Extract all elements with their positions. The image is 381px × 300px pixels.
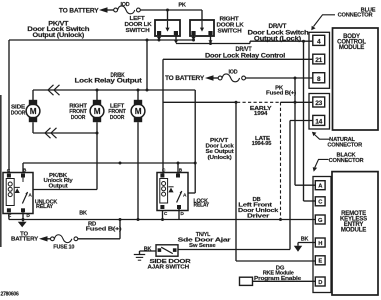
wire bottom bus to RKE pin G bbox=[9, 219, 315, 221]
ground RKE pin H bbox=[294, 246, 302, 252]
unlock relay top pin squares bbox=[7, 174, 11, 178]
svg-text:CONNECTOR: CONNECTOR bbox=[329, 158, 364, 164]
svg-text:Sw Sense: Sw Sense bbox=[189, 243, 216, 249]
lock relay diode bbox=[168, 188, 173, 193]
wire sense drop to RKE pin E bbox=[235, 102, 237, 261]
svg-text:BATTERY: BATTERY bbox=[11, 237, 38, 243]
svg-text:IOD: IOD bbox=[229, 70, 238, 76]
switch S2 contact squares bbox=[191, 31, 195, 35]
svg-text:MODULE: MODULE bbox=[339, 44, 364, 51]
svg-text:TO BATTERY: TO BATTERY bbox=[59, 8, 100, 15]
svg-text:IOD: IOD bbox=[121, 2, 130, 8]
motor M3 left front door bbox=[137, 90, 139, 100]
wire pin 23 feed (early 1994) bbox=[163, 101, 237, 103]
svg-text:Fused B(+): Fused B(+) bbox=[266, 90, 296, 96]
pin H box bbox=[315, 238, 325, 247]
svg-text:Lock Relay Output: Lock Relay Output bbox=[75, 78, 142, 85]
wire fuse10 riser bbox=[119, 220, 121, 239]
svg-text:DOOR: DOOR bbox=[11, 110, 26, 116]
connector blue bracket bbox=[309, 32, 330, 88]
unlock relay bottom pin squares bbox=[7, 208, 11, 212]
wire door lock relay control bbox=[163, 58, 313, 60]
svg-text:RELAY: RELAY bbox=[194, 203, 210, 209]
module remote keyless entry box bbox=[332, 172, 378, 295]
svg-text:8: 8 bbox=[317, 76, 321, 83]
svg-text:E: E bbox=[318, 259, 322, 265]
module body control module box bbox=[333, 28, 379, 130]
svg-text:M: M bbox=[94, 107, 101, 116]
svg-text:CONNECTOR: CONNECTOR bbox=[338, 13, 373, 19]
motor M1 side door bbox=[32, 90, 34, 100]
switch S2 lock output stub bbox=[210, 35, 212, 41]
node unlock output junctions bbox=[119, 162, 122, 165]
svg-text:RELAY: RELAY bbox=[36, 204, 54, 210]
node bottom bus junctions bbox=[119, 218, 122, 221]
wire fused B+ to pin 8 bbox=[246, 77, 313, 79]
switch side door ajar body bbox=[156, 245, 178, 256]
svg-text:CONNECTOR: CONNECTOR bbox=[327, 143, 362, 149]
switch side door ajar contacts bbox=[158, 248, 162, 252]
svg-text:D: D bbox=[318, 280, 322, 286]
svg-text:BK: BK bbox=[79, 210, 87, 216]
component RKE program enable box bbox=[240, 277, 253, 285]
node pin8 wire junction bbox=[294, 77, 297, 80]
svg-text:PK: PK bbox=[178, 2, 186, 8]
svg-text:1994: 1994 bbox=[254, 111, 268, 117]
wire early/late dashed divider bbox=[280, 102, 282, 219]
ground unlock relay bbox=[18, 222, 27, 227]
connector chevrons on motors top wire bbox=[48, 85, 54, 95]
svg-text:MODULE: MODULE bbox=[341, 227, 366, 234]
svg-text:TO BATTERY: TO BATTERY bbox=[165, 75, 205, 82]
wire lock output horizontal bbox=[176, 43, 250, 45]
lock relay top pin squares bbox=[160, 174, 164, 178]
connector natural bracket bbox=[309, 94, 330, 130]
unlock relay coil box bbox=[6, 179, 14, 206]
wire into RKE pin C bbox=[304, 200, 316, 202]
svg-text:M: M bbox=[30, 107, 37, 116]
wire lock relay output (motors top) bbox=[33, 89, 195, 91]
node pin23 wire junctions bbox=[235, 101, 238, 104]
svg-text:Driver: Driver bbox=[247, 213, 270, 219]
switch S1 unlock output stub bbox=[158, 35, 160, 37]
wire unlock rly output (horizontal) bbox=[23, 162, 195, 164]
pin 21 box bbox=[313, 54, 325, 64]
switch S2 right door lock switch body bbox=[190, 20, 214, 36]
wire into pin 14 bbox=[290, 120, 313, 122]
arrow to blue connector bbox=[314, 15, 336, 27]
wire lock relay B to output wire bbox=[177, 163, 179, 174]
arrow battery feed bottom bbox=[39, 236, 48, 241]
lock relay coil circles bbox=[162, 182, 166, 186]
node unlock relay ground junction bbox=[22, 218, 25, 221]
node junction above left switch bbox=[166, 9, 169, 12]
wire ajar sense horizontal bbox=[178, 249, 290, 251]
switch S1 wiper arrow bbox=[167, 21, 169, 28]
fuse FUSE 10 bbox=[51, 237, 55, 241]
wire unlock output left drop bbox=[8, 40, 10, 173]
pin E box bbox=[315, 256, 325, 265]
wire unlock relay bottom stubs bbox=[8, 214, 10, 220]
wire pin4 drop to pin14 and RKE pin C bbox=[303, 41, 305, 201]
wire PK battery to switches bbox=[140, 9, 202, 11]
pin 4 box bbox=[313, 35, 325, 45]
switch S1 lock output stub bbox=[175, 35, 177, 41]
svg-text:BK: BK bbox=[301, 237, 309, 243]
switch S1 contact squares bbox=[157, 31, 161, 35]
svg-text:14: 14 bbox=[315, 118, 322, 125]
lock relay contact arm bbox=[177, 191, 182, 203]
lock relay coil box bbox=[160, 179, 168, 204]
svg-text:Fused B(+): Fused B(+) bbox=[86, 227, 122, 233]
pin A box bbox=[315, 181, 325, 190]
wire unlock output horizontal bbox=[9, 39, 194, 41]
wire ajar switch to ground bbox=[140, 250, 157, 252]
unlock relay coil circles bbox=[8, 182, 12, 186]
relay unlock relay body bbox=[3, 173, 33, 214]
wire lock relay A to drop bbox=[188, 192, 195, 194]
svg-text:FUSE 10: FUSE 10 bbox=[53, 244, 75, 250]
motor M2 right front door bbox=[96, 90, 98, 100]
svg-text:SWITCH: SWITCH bbox=[218, 29, 242, 35]
unlock relay contact arm bbox=[22, 178, 24, 183]
svg-text:4: 4 bbox=[317, 38, 321, 45]
wire into RKE pin E bbox=[236, 260, 315, 262]
svg-text:Output (Unlock): Output (Unlock) bbox=[33, 32, 85, 39]
fuse IOD (mid) bbox=[218, 76, 222, 80]
svg-text:DOOR: DOOR bbox=[71, 115, 86, 121]
node unlock wire junctions bbox=[146, 39, 149, 42]
svg-text:1994-95: 1994-95 bbox=[252, 141, 272, 147]
wire lock relay bottom stubs bbox=[162, 211, 164, 220]
svg-text:2780606: 2780606 bbox=[1, 292, 19, 298]
lock relay bottom pin squares bbox=[160, 205, 164, 209]
wire fused B+ drop to pin23 wire and RKE pin A bbox=[294, 78, 296, 185]
wire program enable to RKE pin D bbox=[253, 280, 316, 282]
pin 14 box bbox=[313, 115, 325, 125]
connector black bracket bbox=[313, 177, 331, 293]
wire motor2 drop bbox=[96, 133, 98, 190]
fuse IOD (top) bbox=[114, 8, 118, 12]
wire unlock relay A to motor drop bbox=[33, 189, 97, 191]
arrow to natural connector bbox=[315, 135, 331, 140]
wire relay control drop to lock relay bbox=[162, 59, 164, 173]
pin C box bbox=[315, 197, 325, 206]
svg-text:Output: Output bbox=[49, 184, 68, 190]
arrow battery feed mid bbox=[205, 75, 214, 80]
switch S2 unlock output stub bbox=[193, 35, 195, 37]
relay lock relay body bbox=[157, 173, 188, 211]
arrow battery feed top bbox=[99, 7, 108, 12]
wire ajar sense riser bbox=[289, 121, 291, 250]
wire drop to right door lock switch bbox=[201, 10, 203, 20]
wire motors bottom bbox=[33, 132, 97, 134]
ground side door ajar switch bbox=[134, 254, 145, 256]
svg-text:SWITCH: SWITCH bbox=[126, 28, 150, 34]
svg-text:23: 23 bbox=[315, 100, 322, 107]
pin D box bbox=[315, 277, 325, 286]
node lock wire junctions bbox=[209, 42, 212, 45]
wire motors top right drop bbox=[194, 90, 196, 193]
svg-text:DOOR: DOOR bbox=[110, 115, 125, 121]
wire into RKE pin A bbox=[295, 184, 315, 186]
pin 23 box bbox=[313, 97, 325, 107]
node motors top junctions bbox=[96, 89, 99, 92]
wire unlock relay B to output wire bbox=[22, 163, 24, 173]
arrow to black connector bbox=[315, 159, 329, 167]
switch S2 wiper arrow bbox=[201, 21, 203, 28]
pin G box bbox=[315, 215, 325, 224]
wire drop to left door lock switch bbox=[167, 10, 169, 20]
wire RKE pin H to ground bbox=[298, 242, 315, 244]
svg-text:(Unlock): (Unlock) bbox=[208, 155, 232, 161]
switch S1 left door lock switch body bbox=[155, 20, 180, 36]
svg-text:Door Lock Relay Control: Door Lock Relay Control bbox=[205, 52, 286, 59]
unlock relay diode bbox=[15, 188, 20, 193]
svg-text:G: G bbox=[318, 218, 323, 224]
node dashed divider end bbox=[279, 218, 282, 221]
svg-text:21: 21 bbox=[315, 57, 322, 64]
svg-text:AJAR SWITCH: AJAR SWITCH bbox=[147, 264, 189, 270]
connector chevrons on motors bottom wire bbox=[45, 128, 51, 138]
svg-text:M: M bbox=[135, 107, 142, 116]
pin 8 box bbox=[313, 73, 325, 83]
scan artifact left edge bbox=[0, 95, 2, 247]
wire switch unlock drop to motors wire bbox=[146, 40, 148, 90]
svg-text:H: H bbox=[318, 241, 322, 247]
node lock relay stub junction bbox=[161, 218, 164, 221]
